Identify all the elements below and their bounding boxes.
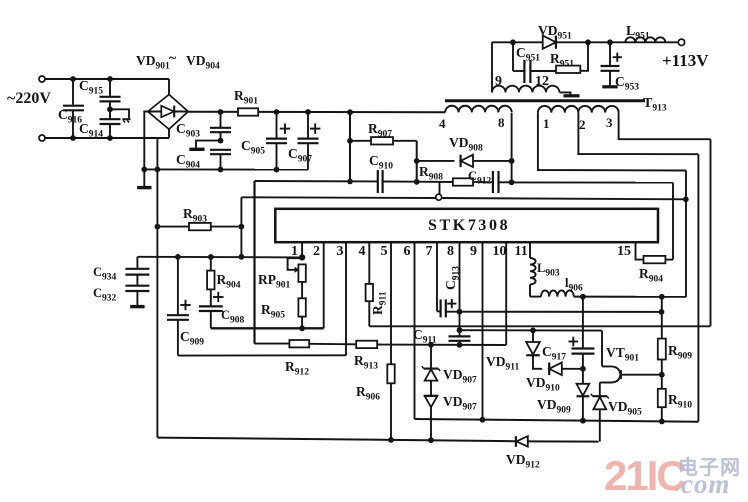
- pin 1 lead: [301, 242, 303, 257]
- resistor R907: [350, 140, 371, 142]
- capacitor C913 plates: [440, 299, 442, 317]
- node C910 right: [414, 179, 420, 185]
- resistor R910: [658, 389, 666, 407]
- diode VD907 a zener: [424, 368, 439, 370]
- bridge internal diode: [149, 111, 188, 113]
- inductor L951: [625, 37, 665, 42]
- node R903 right: [239, 224, 245, 230]
- node R904 top: [208, 254, 214, 260]
- node C914 bottom: [107, 135, 113, 141]
- node R907 branch top: [347, 109, 353, 115]
- wire tap12 drop: [578, 113, 698, 155]
- RP901 wiper hook: [288, 258, 303, 270]
- node minus rail left: [155, 167, 161, 173]
- capacitor C917: [582, 297, 584, 348]
- wire C909 bottom line: [178, 354, 346, 356]
- wire R906 bottom: [390, 383, 392, 440]
- svg-text:10: 10: [493, 244, 507, 259]
- node C911 bottom: [457, 342, 463, 348]
- chassis ground winding12: [564, 94, 580, 97]
- node C905 top: [274, 109, 280, 115]
- svg-text:5: 5: [381, 244, 388, 259]
- node C912 right: [509, 179, 515, 185]
- resistor R913: [356, 341, 377, 348]
- resistor R905: [298, 298, 305, 316]
- ground at C903-C904: [189, 148, 204, 151]
- wire bridge bottom corner: [168, 129, 170, 138]
- svg-text:3: 3: [337, 244, 344, 259]
- wire gate rail: [241, 197, 685, 199]
- wire L903 bottom: [529, 284, 531, 296]
- wire main positive rail: [188, 111, 445, 113]
- wire R914 right: [665, 259, 673, 261]
- wire line-182 to right: [512, 181, 673, 183]
- diode VD909: [577, 384, 590, 396]
- pin 15 lead: [636, 242, 644, 259]
- resistor R904: [210, 257, 212, 271]
- wire rail-257: [137, 256, 302, 259]
- transformer core: [445, 99, 645, 102]
- wire rail-181 left segment: [255, 180, 378, 182]
- node R909 top rail: [659, 294, 665, 300]
- node gate rail right: [683, 196, 689, 202]
- wire snubber left: [512, 42, 514, 71]
- wire rail-312: [446, 311, 661, 313]
- wire R912 line left: [255, 343, 290, 345]
- node VD951 left: [510, 39, 516, 45]
- diode VD911: [532, 330, 534, 342]
- resistor R908: [453, 178, 473, 185]
- capacitor C909: [177, 257, 179, 315]
- node emitter R909 R910: [659, 372, 665, 378]
- ground below bridge: [143, 169, 145, 187]
- wire top rail 113V: [492, 41, 678, 43]
- pin 11 lead: [529, 242, 531, 258]
- wire pin4 to rail-326: [368, 301, 370, 326]
- capacitor C953: [609, 42, 611, 65]
- winding 1-2-3: [538, 106, 619, 113]
- wire R908 left lead: [417, 181, 453, 183]
- svg-text:9: 9: [470, 244, 477, 259]
- svg-text:1: 1: [543, 116, 550, 131]
- capacitor C915: [109, 79, 111, 96]
- wire C951-R951: [531, 70, 556, 72]
- node pin8 c911 top: [457, 327, 463, 333]
- svg-text:6: 6: [404, 244, 411, 259]
- wire VD908 left: [417, 160, 455, 162]
- svg-text:STK7308: STK7308: [428, 217, 510, 234]
- plus C907: [310, 128, 320, 130]
- svg-text:4: 4: [439, 116, 446, 131]
- plus C909: [180, 304, 190, 306]
- node C904 bottom: [218, 167, 224, 173]
- svg-text:2: 2: [313, 244, 320, 259]
- wire C912 right: [499, 181, 512, 183]
- inductor L903: [530, 258, 536, 284]
- wire winding9 left up: [491, 42, 493, 92]
- resistor R951: [556, 66, 580, 73]
- wire VT901 top: [601, 331, 603, 367]
- capacitor C951 plates: [523, 60, 525, 83]
- pin 10 lead: [505, 242, 507, 345]
- wire bridge top stem: [168, 79, 170, 95]
- capacitor C912 plates: [492, 171, 494, 193]
- wire chassis hook: [110, 109, 129, 118]
- wire VT901 emitter: [621, 374, 662, 376]
- node C916 bottom: [70, 135, 76, 141]
- wire VD907 mid: [430, 381, 432, 396]
- wire right drop x673: [672, 183, 674, 260]
- wire rail-297: [574, 296, 686, 298]
- capacitor C910 plates: [377, 170, 379, 193]
- node C916 top: [70, 76, 76, 82]
- wire VD905 bottom: [599, 409, 601, 441]
- wire R951 up: [580, 42, 588, 71]
- wire VD908 right: [473, 160, 512, 162]
- plus C913: [447, 303, 456, 305]
- pin 7 lead: [436, 242, 438, 311]
- diode VD951: [543, 36, 556, 49]
- wire minus rail: [144, 168, 308, 170]
- output terminal +113V: [678, 39, 684, 45]
- node VD907 bottom: [428, 437, 434, 443]
- svg-text:2: 2: [579, 117, 586, 132]
- pin 4 lead: [368, 242, 370, 284]
- node C903 top: [218, 109, 224, 115]
- svg-text:12: 12: [535, 74, 549, 89]
- resistor R914 (labelled R904): [644, 256, 666, 263]
- node VD907 top: [428, 342, 434, 348]
- svg-text:11: 11: [515, 244, 528, 259]
- capacitor C903: [220, 112, 222, 127]
- svg-text:~220V: ~220V: [7, 90, 51, 107]
- node C914-C915 mid: [107, 106, 113, 112]
- capacitor C911: [449, 335, 471, 337]
- wire rail-326: [369, 325, 710, 327]
- resistor R903 branch: [157, 226, 189, 228]
- capacitor C905: [276, 112, 278, 138]
- wire VD910 right: [562, 368, 583, 370]
- wire R913 right: [377, 344, 506, 347]
- wire rail-330: [460, 329, 603, 331]
- svg-text:+113V: +113V: [662, 51, 709, 70]
- wire input top: [45, 78, 169, 80]
- chassis ground C953: [602, 85, 617, 88]
- svg-text:9: 9: [495, 74, 502, 89]
- pin 5 lead: [390, 242, 392, 364]
- wire pin3 lead: [345, 242, 347, 355]
- wire bridge bottom drop: [156, 138, 158, 169]
- resistor R906: [387, 364, 394, 383]
- node C917 top: [580, 294, 586, 300]
- winding 4-8: [445, 106, 512, 113]
- node R907 left: [347, 138, 353, 144]
- svg-text:8: 8: [447, 244, 454, 259]
- diode VD908: [461, 155, 473, 167]
- svg-text:15: 15: [617, 244, 631, 259]
- svg-text:~: ~: [169, 51, 177, 66]
- wire rail-181 mid segment: [383, 181, 417, 183]
- svg-text:1: 1: [291, 244, 298, 259]
- bridge rectifier VD901-VD904 diamond: [148, 95, 188, 130]
- wire bottom rail VD912 line: [157, 438, 515, 442]
- plus C917: [569, 341, 579, 343]
- potentiometer RP901: [298, 264, 305, 282]
- node C915 top: [107, 76, 113, 82]
- AC input terminal top: [39, 76, 45, 82]
- node C907 top: [305, 109, 311, 115]
- wire R909-R910: [661, 360, 663, 389]
- wire R909 vertical top: [661, 297, 663, 339]
- diode VD905 zener: [593, 395, 607, 397]
- wire VD907 branch top: [430, 345, 432, 368]
- AC input terminal bottom: [39, 135, 45, 141]
- capacitor C934: [136, 257, 138, 269]
- node R903 left: [155, 224, 161, 230]
- wire VT901 down: [599, 383, 601, 396]
- wire right vertical x698: [697, 154, 699, 422]
- capacitor C904: [210, 149, 231, 151]
- pin 9 lead: [482, 242, 484, 420]
- plus C953: [613, 56, 622, 58]
- winding 9-12: [492, 86, 559, 93]
- node VD911 top: [530, 328, 536, 334]
- wire R912-R913: [309, 343, 356, 346]
- terminal circle on gate rail: [436, 194, 442, 200]
- wire VD907 bottom: [430, 407, 432, 440]
- capacitor C908: [199, 305, 223, 307]
- node pin1: [299, 254, 305, 260]
- node R910 bottom: [659, 419, 665, 425]
- capacitor C916: [72, 79, 74, 105]
- diode VD907 b: [424, 395, 438, 397]
- svg-text:3: 3: [606, 115, 613, 130]
- node rail-181 at R907: [347, 179, 353, 185]
- wire R905 bottom: [301, 317, 303, 329]
- pin 8 lead: [459, 242, 461, 336]
- node VD909 bottom: [580, 418, 586, 424]
- wire R907 right vertical: [416, 141, 418, 182]
- node R905 bottom: [299, 325, 305, 331]
- diode VD910: [549, 363, 562, 376]
- capacitor C907: [307, 112, 309, 138]
- node pin9 bottom: [480, 417, 486, 423]
- node VD908 left: [414, 158, 420, 164]
- node C917 mid: [580, 366, 586, 372]
- svg-text:com: com: [681, 469, 731, 499]
- wire right vertical x710: [710, 139, 712, 326]
- capacitor C932: [136, 275, 138, 286]
- node VD908 right: [509, 158, 515, 164]
- svg-text:4: 4: [359, 244, 366, 259]
- resistor R901: [238, 108, 258, 115]
- wire RP901-R905: [301, 282, 303, 298]
- wire rail-420: [415, 419, 699, 422]
- node rail-312 right: [659, 309, 665, 315]
- wire input bottom: [45, 137, 169, 139]
- wire rail-328: [211, 327, 324, 329]
- diode VD912: [515, 436, 517, 447]
- wire R910 bottom: [661, 407, 663, 421]
- resistor R911: [366, 284, 373, 301]
- wire pin2 lead: [323, 242, 325, 328]
- node C953 top: [607, 39, 613, 45]
- node VD951 right: [585, 39, 591, 45]
- resistor R912: [289, 340, 309, 347]
- wire R907 left vertical: [349, 112, 351, 182]
- wire bridge left to ground rail: [144, 112, 148, 170]
- plus C905: [280, 128, 290, 130]
- plus C908: [213, 296, 223, 298]
- wire winding1 drop: [538, 113, 686, 171]
- svg-text:7: 7: [426, 244, 433, 259]
- node C909 top: [175, 254, 181, 260]
- wire R903 right vertical: [240, 197, 242, 256]
- wire right vertical x686: [685, 171, 687, 297]
- ground under C932: [136, 291, 138, 307]
- wire VD911 bottom: [533, 355, 542, 368]
- inductor L906: [541, 290, 574, 296]
- wire vertical x254: [253, 181, 255, 344]
- svg-text:8: 8: [498, 115, 505, 130]
- wire drop to circle: [439, 182, 441, 195]
- node R906 bottom: [388, 437, 394, 443]
- wire C903 ground hook: [196, 141, 221, 148]
- wire winding8 drop: [511, 113, 513, 182]
- wire R908 to C912: [473, 181, 492, 183]
- IC U1 STK7308 box: [275, 209, 658, 242]
- transistor VT901: [600, 366, 621, 382]
- wire left vertical rail: [156, 169, 158, 437]
- resistor R909: [658, 339, 666, 360]
- pin 6 lead: [414, 242, 416, 419]
- node rail-312 pin8: [457, 309, 463, 315]
- capacitor C914: [100, 118, 121, 120]
- node C903-C904 junction: [218, 138, 224, 144]
- wire winding12 right: [560, 92, 571, 94]
- chassis ground mark: [122, 118, 130, 120]
- node rail-257 right: [239, 254, 245, 260]
- wire winding3 drop: [619, 113, 711, 140]
- node C905 bottom: [274, 167, 280, 173]
- node bridge left bottom: [141, 167, 147, 173]
